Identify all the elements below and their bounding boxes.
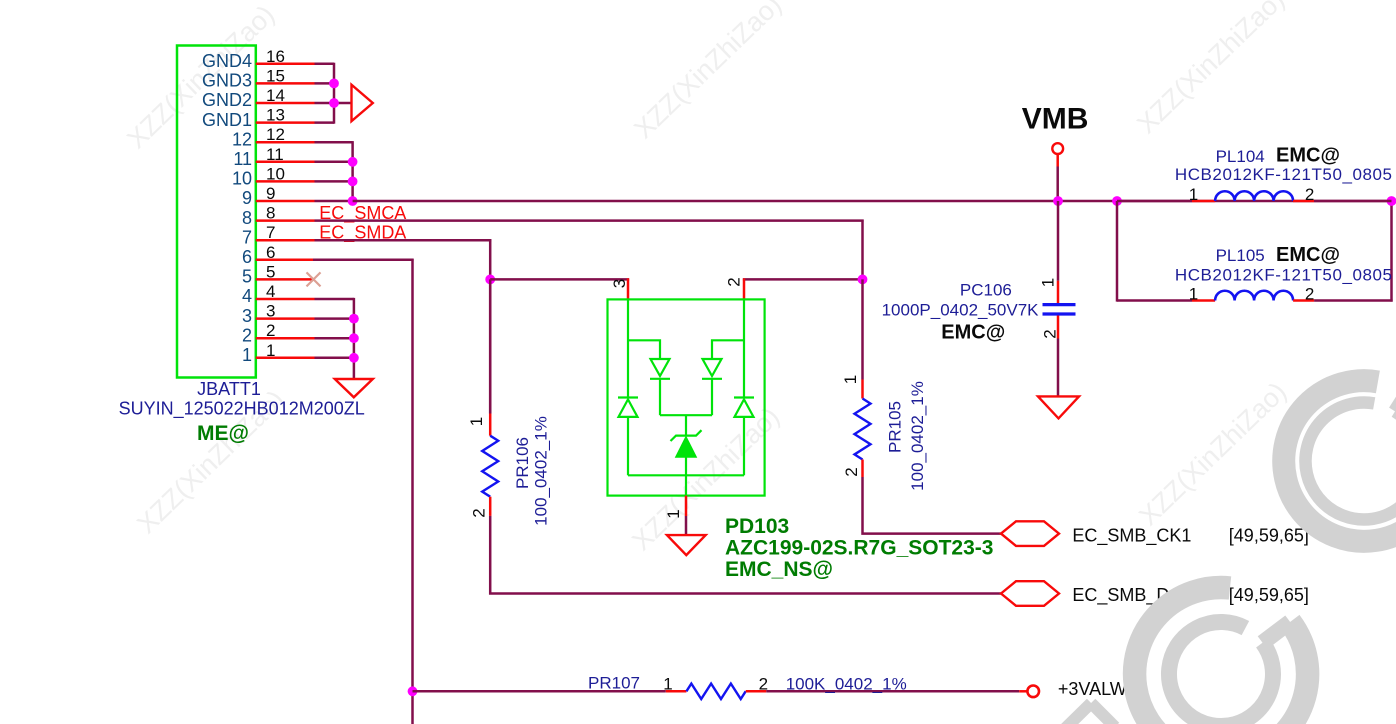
svg-text:1000P_0402_50V7K: 1000P_0402_50V7K bbox=[882, 301, 1040, 320]
junction right edge bbox=[1387, 196, 1396, 206]
pin 11 (11) stub wire bbox=[233, 145, 314, 169]
pin 3 (3) stub wire bbox=[242, 302, 315, 326]
power symbol VMB circle bbox=[1052, 143, 1063, 154]
wire PD103 pin1 to ground bbox=[685, 516, 688, 535]
svg-text:5: 5 bbox=[266, 262, 275, 281]
wire VMB to bus bbox=[1056, 167, 1059, 202]
pin 2 (2) stub wire bbox=[242, 321, 315, 345]
PD103 clamp diode left bbox=[618, 398, 638, 417]
svg-text:EMC@: EMC@ bbox=[1276, 144, 1340, 166]
wire pins 4-1 vertical bbox=[353, 298, 356, 379]
resistor PR107 pin1 stub bbox=[666, 690, 687, 693]
wire pin 2 bbox=[315, 337, 354, 340]
inductor PL104 bbox=[1117, 191, 1392, 201]
svg-text:PR106: PR106 bbox=[513, 437, 532, 489]
wire pin 6 vertical to bottom bbox=[411, 259, 414, 724]
PD103 pin1 stub bbox=[685, 496, 688, 516]
ground symbol PD103 bbox=[667, 535, 706, 555]
svg-text:2: 2 bbox=[470, 508, 489, 517]
svg-text:GND3: GND3 bbox=[202, 71, 252, 91]
resistor PR107 pin2 stub bbox=[746, 690, 767, 693]
pin 14 (GND2) stub wire bbox=[202, 86, 315, 110]
+3VALW stub bbox=[1019, 690, 1026, 693]
svg-text:JBATT1: JBATT1 bbox=[197, 379, 261, 399]
svg-text:9: 9 bbox=[266, 184, 275, 203]
wire EC_SMCA vertical bbox=[861, 220, 864, 280]
wire pin 12 bbox=[315, 141, 353, 144]
svg-text:AZC199-02S.R7G_SOT23-3: AZC199-02S.R7G_SOT23-3 bbox=[725, 537, 993, 560]
svg-text:HCB2012KF-121T50_0805: HCB2012KF-121T50_0805 bbox=[1175, 165, 1393, 184]
svg-text:GND2: GND2 bbox=[202, 90, 252, 110]
svg-text:1: 1 bbox=[1189, 185, 1198, 204]
wire pin 9 bbox=[315, 200, 353, 203]
svg-text:12: 12 bbox=[266, 125, 285, 144]
VMB stub bbox=[1056, 154, 1059, 167]
svg-text:1: 1 bbox=[841, 375, 860, 384]
wire EC_SMDA to PR106 bbox=[489, 279, 492, 413]
wire bracket to gnd symbol bbox=[334, 102, 352, 105]
svg-text:100_0402_1%: 100_0402_1% bbox=[532, 416, 551, 526]
svg-text:+3VALW: +3VALW bbox=[1058, 679, 1127, 699]
svg-text:EC_SMB_CK1: EC_SMB_CK1 bbox=[1072, 525, 1191, 546]
svg-text:1: 1 bbox=[242, 345, 252, 365]
wire bus to PC106 bbox=[1057, 201, 1060, 281]
junction pin9 (VMB net) bbox=[348, 196, 358, 206]
svg-text:5: 5 bbox=[242, 267, 252, 287]
svg-text:2: 2 bbox=[842, 467, 861, 476]
wire pin 1 bbox=[315, 357, 354, 360]
wire pin 16 to gnd bracket bbox=[315, 63, 335, 66]
resistor PR106 pin1 stub bbox=[489, 414, 492, 436]
svg-text:14: 14 bbox=[266, 86, 285, 105]
PD103 clamp diode right bbox=[734, 398, 754, 417]
svg-text:3: 3 bbox=[266, 302, 275, 321]
capacitor PC106 plates bbox=[1043, 305, 1076, 314]
wire PC106 to ground bbox=[1057, 339, 1060, 397]
svg-text:2: 2 bbox=[1041, 329, 1060, 338]
wire pin 14 to gnd bracket bbox=[315, 102, 335, 105]
svg-text:10: 10 bbox=[266, 164, 285, 183]
svg-text:9: 9 bbox=[242, 188, 252, 208]
svg-text:11: 11 bbox=[233, 149, 252, 169]
PD103 zener diode bbox=[671, 430, 702, 457]
wire PD103 pin2 horizontal bbox=[743, 278, 864, 281]
svg-text:2: 2 bbox=[1305, 185, 1314, 204]
svg-text:4: 4 bbox=[242, 286, 252, 306]
svg-text:PR105: PR105 bbox=[886, 401, 905, 453]
wire EC_SMCA horizontal bbox=[315, 219, 864, 222]
svg-text:2: 2 bbox=[1305, 284, 1314, 303]
pin 4 (4) stub wire bbox=[242, 282, 315, 306]
wire pin 15 to gnd bracket bbox=[315, 82, 335, 85]
resistor PR105 pin2 stub bbox=[861, 460, 864, 478]
wire pin 13 to gnd bracket bbox=[315, 121, 335, 124]
pin 1 (1) stub wire bbox=[242, 341, 315, 365]
wire pin 3 bbox=[315, 317, 354, 320]
svg-text:SUYIN_125022HB012M200ZL: SUYIN_125022HB012M200ZL bbox=[119, 399, 365, 420]
svg-text:1: 1 bbox=[663, 674, 672, 693]
diode array PD103 body bbox=[608, 299, 765, 495]
svg-text:[49,59,65]: [49,59,65] bbox=[1229, 585, 1309, 605]
wire bus right corner bbox=[1390, 201, 1393, 302]
inductor PL105 bbox=[1117, 201, 1393, 302]
svg-text:7: 7 bbox=[266, 223, 275, 242]
junction pin2 bbox=[349, 333, 359, 343]
svg-text:GND1: GND1 bbox=[202, 110, 252, 130]
svg-text:PR107: PR107 bbox=[588, 674, 640, 693]
wire VMB bus (pin9 to right edge) bbox=[353, 200, 1392, 203]
pin 10 (10) stub wire bbox=[232, 164, 315, 188]
ground symbol (pins 1-4) bbox=[335, 379, 373, 397]
connector JBATT1 body bbox=[177, 46, 256, 378]
junction PL104 bbox=[1112, 196, 1122, 206]
svg-text:2: 2 bbox=[242, 325, 252, 345]
capacitor PC106 pin1 stub bbox=[1057, 281, 1060, 303]
PD103 internal wiring bbox=[628, 299, 744, 495]
watermark logo rings bbox=[1032, 381, 1396, 724]
resistor PR106 pin2 stub bbox=[489, 497, 492, 516]
junction pin10 bbox=[348, 177, 358, 187]
PD103 steering diode right bbox=[702, 359, 722, 379]
pin 15 (GND3) stub wire bbox=[202, 66, 315, 90]
svg-text:[49,59,65]: [49,59,65] bbox=[1229, 525, 1309, 545]
svg-text:1: 1 bbox=[467, 417, 486, 426]
wire pin 11 bbox=[315, 161, 353, 164]
junction PR107 bbox=[408, 686, 418, 696]
svg-text:2: 2 bbox=[725, 277, 744, 286]
svg-text:ME@: ME@ bbox=[197, 422, 249, 445]
svg-text:7: 7 bbox=[242, 227, 252, 247]
wire PD103 pin2 junction to PR105 bbox=[861, 279, 864, 379]
svg-text:2: 2 bbox=[759, 674, 768, 693]
junction pin3 bbox=[349, 314, 359, 324]
wire PR105 to EC_SMB_CK1 bbox=[863, 477, 1002, 534]
svg-text:PC106: PC106 bbox=[960, 281, 1012, 300]
pin 8 (8) stub wire bbox=[242, 204, 315, 228]
wire PR107 to +3VALW bbox=[766, 690, 1019, 693]
svg-text:100K_0402_1%: 100K_0402_1% bbox=[786, 674, 907, 693]
no-connect X pin 5 bbox=[307, 272, 321, 286]
svg-text:100_0402_1%: 100_0402_1% bbox=[908, 381, 927, 491]
junction VMB bbox=[1053, 196, 1063, 206]
wire pin 6 horizontal bbox=[313, 259, 414, 262]
resistor PR107 bbox=[686, 684, 745, 699]
svg-text:13: 13 bbox=[266, 106, 285, 125]
resistor PR106 bbox=[482, 436, 498, 497]
PD103 pin2 stub bbox=[743, 278, 746, 299]
junction EC_SMCA / PD103 pin2 / PR105 bbox=[858, 275, 868, 285]
wire PR106 to EC_SMB_DA1 bbox=[490, 516, 1001, 594]
wire pins 12-9 vertical bbox=[351, 141, 354, 201]
svg-text:PD103: PD103 bbox=[725, 515, 789, 538]
svg-text:1: 1 bbox=[664, 509, 683, 518]
junction pin14 bbox=[329, 98, 339, 108]
junction pin1 bbox=[349, 353, 359, 363]
wire pin6 net to PR107 bbox=[413, 690, 666, 693]
resistor PR105 pin1 stub bbox=[861, 380, 864, 399]
wire pin 10 bbox=[315, 180, 353, 183]
resistor PR105 bbox=[855, 399, 871, 460]
svg-text:8: 8 bbox=[266, 204, 275, 223]
power terminal +3VALW bbox=[1027, 686, 1039, 698]
svg-text:3: 3 bbox=[242, 306, 252, 326]
watermark text bbox=[121, 0, 1292, 556]
svg-text:HCB2012KF-121T50_0805: HCB2012KF-121T50_0805 bbox=[1175, 265, 1393, 284]
pin 12 (12) stub wire bbox=[232, 125, 315, 149]
svg-text:2: 2 bbox=[266, 321, 275, 340]
svg-text:4: 4 bbox=[266, 282, 275, 301]
wire pin 4 bbox=[315, 298, 354, 301]
svg-text:1: 1 bbox=[1039, 278, 1058, 287]
svg-text:EMC@: EMC@ bbox=[1276, 244, 1340, 266]
junction pin11 bbox=[348, 157, 358, 167]
svg-text:PL105: PL105 bbox=[1216, 246, 1265, 265]
svg-text:EMC@: EMC@ bbox=[941, 321, 1005, 343]
svg-text:16: 16 bbox=[266, 47, 285, 66]
wire PD103 pin3 horizontal bbox=[490, 278, 629, 281]
svg-text:6: 6 bbox=[266, 243, 275, 262]
pin 6 (6) stub wire bbox=[242, 243, 315, 267]
wire EC_SMDA horizontal bbox=[315, 239, 492, 242]
pin 13 (GND1) stub wire bbox=[202, 106, 315, 130]
svg-text:GND4: GND4 bbox=[202, 51, 252, 71]
ground symbol PC106 bbox=[1038, 396, 1079, 418]
svg-text:VMB: VMB bbox=[1022, 102, 1089, 135]
svg-text:10: 10 bbox=[232, 169, 252, 189]
pin 9 (9) stub wire bbox=[242, 184, 315, 208]
svg-text:3: 3 bbox=[610, 279, 629, 288]
junction pin15 bbox=[329, 79, 339, 89]
svg-text:8: 8 bbox=[242, 208, 252, 228]
wire EC_SMDA vertical bbox=[489, 239, 492, 413]
capacitor PC106 pin2 stub bbox=[1057, 316, 1060, 339]
pin 5 (5) stub wire bbox=[242, 262, 315, 286]
off-page connector EC_SMB_CK1 bbox=[1001, 521, 1059, 546]
svg-text:1: 1 bbox=[266, 341, 275, 360]
off-page connector EC_SMB_DA1 bbox=[1001, 581, 1059, 606]
junction EC_SMDA / PD103 pin3 bbox=[485, 275, 495, 285]
pin 7 (7) stub wire bbox=[242, 223, 315, 247]
pin 16 (GND4) stub wire bbox=[202, 47, 315, 71]
svg-text:12: 12 bbox=[232, 129, 252, 149]
svg-text:EMC_NS@: EMC_NS@ bbox=[725, 558, 833, 581]
ground symbol (pins 13-16) bbox=[352, 85, 373, 122]
svg-text:1: 1 bbox=[1189, 284, 1198, 303]
svg-text:11: 11 bbox=[266, 145, 284, 164]
PD103 pin3 stub bbox=[627, 278, 630, 299]
PD103 steering diode left bbox=[650, 359, 670, 379]
svg-text:6: 6 bbox=[242, 247, 252, 267]
wire gnd bracket vertical bbox=[333, 63, 336, 124]
svg-text:PL104: PL104 bbox=[1216, 147, 1265, 166]
svg-text:15: 15 bbox=[266, 66, 285, 85]
